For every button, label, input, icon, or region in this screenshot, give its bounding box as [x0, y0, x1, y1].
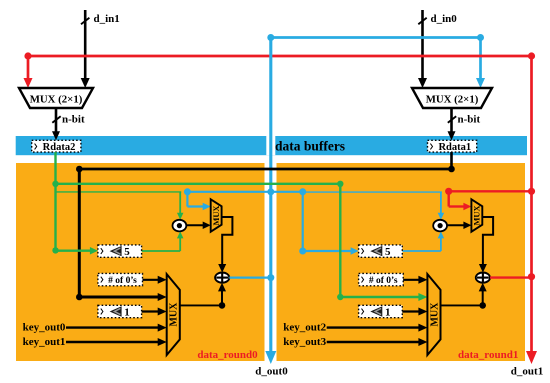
svg-text:key_out1: key_out1	[23, 336, 66, 348]
svg-text:5: 5	[124, 246, 130, 258]
svg-text:MUX: MUX	[212, 205, 221, 225]
svg-text:data_round0: data_round0	[197, 349, 258, 361]
svg-text:MUX: MUX	[472, 205, 481, 225]
svg-text:data_round1: data_round1	[458, 349, 518, 361]
svg-text:Rdata2: Rdata2	[43, 142, 76, 153]
svg-text:d_in1: d_in1	[94, 13, 120, 25]
svg-text:MUX (2×1): MUX (2×1)	[30, 94, 83, 106]
svg-text:MUX (2×1): MUX (2×1)	[426, 94, 479, 106]
svg-text:Rdata1: Rdata1	[438, 142, 471, 153]
svg-text:# of 0’s: # of 0’s	[108, 276, 137, 286]
svg-text:key_out3: key_out3	[283, 336, 326, 348]
svg-text:key_out2: key_out2	[283, 322, 326, 334]
svg-text:MUX: MUX	[169, 302, 180, 327]
svg-text:1: 1	[124, 306, 130, 318]
svg-text:n-bit: n-bit	[458, 114, 481, 126]
svg-text:key_out0: key_out0	[23, 322, 66, 334]
svg-text:n-bit: n-bit	[62, 114, 85, 126]
svg-text:d_in0: d_in0	[431, 13, 458, 25]
svg-text:d_out0: d_out0	[255, 366, 288, 378]
svg-text:5: 5	[385, 246, 391, 258]
svg-text:data buffers: data buffers	[275, 139, 345, 154]
svg-text:d_out1: d_out1	[511, 366, 543, 378]
svg-text:MUX: MUX	[429, 302, 440, 327]
svg-text:1: 1	[385, 306, 391, 318]
svg-text:# of 0’s: # of 0’s	[369, 276, 398, 286]
